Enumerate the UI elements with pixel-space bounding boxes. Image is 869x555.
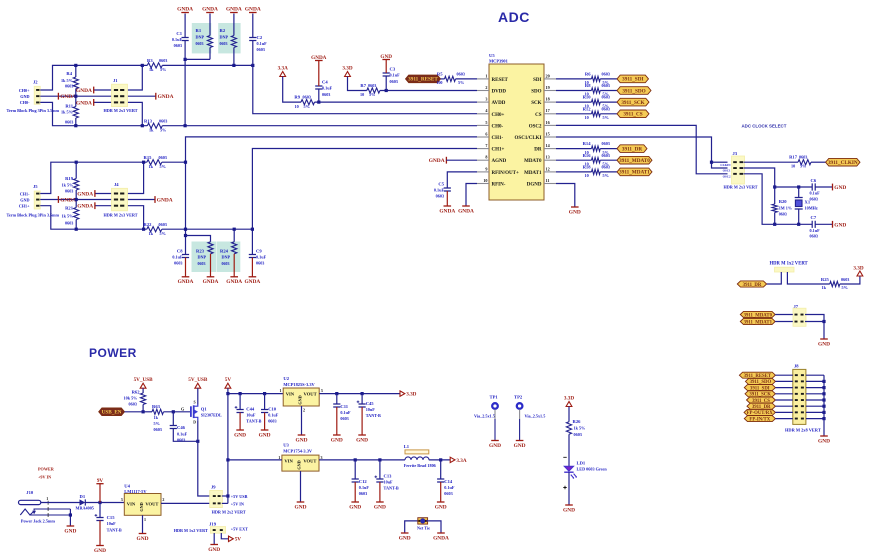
svg-text:100: 100 [436, 80, 442, 85]
svg-text:10k 5%: 10k 5% [124, 395, 138, 400]
svg-text:VOUT: VOUT [145, 502, 158, 507]
capacitor C44 [237, 410, 244, 413]
junction J8 bus row6 [822, 405, 825, 408]
power port 3.3A at R9 [280, 72, 286, 77]
svg-text:GND: GND [296, 437, 308, 443]
svg-text:Term Block Plug 3Pin 3.5mm: Term Block Plug 3Pin 3.5mm [7, 108, 60, 113]
power port GNDA right of J4 [154, 196, 156, 203]
junction R19/R21 GNDA row [75, 198, 78, 201]
resistor R1 DNP [207, 36, 212, 48]
svg-text:1k: 1k [154, 415, 159, 420]
svg-text:10uF: 10uF [366, 407, 376, 412]
wire C1 down crossing to CH0- rail [184, 41, 186, 126]
svg-text:0603: 0603 [602, 153, 610, 158]
svg-text:3911_DR: 3911_DR [622, 146, 642, 152]
svg-text:3911_MDAT0: 3911_MDAT0 [619, 158, 650, 164]
svg-text:R19: R19 [65, 176, 74, 181]
power port GND below U4 [139, 533, 147, 535]
resistor R8 [592, 88, 601, 93]
svg-text:5%: 5% [160, 127, 166, 132]
port 3911_CS at J8 row5 [747, 397, 776, 403]
wire R19 bottom [75, 190, 77, 200]
wire U4 GND pin [142, 515, 144, 533]
inductor L1 ferrite bead [405, 450, 429, 454]
U5 pin 12 stub [544, 171, 556, 173]
port 3911_RESET [406, 75, 441, 83]
power port GNDA J2 middle [57, 93, 59, 100]
svg-text:5%: 5% [458, 80, 464, 85]
wire X1 top [798, 187, 800, 198]
wire CH1 bottom rail to C9 [162, 228, 253, 230]
wire C3 down [385, 76, 387, 91]
wire R63 to gate [164, 411, 192, 413]
svg-text:CH0+: CH0+ [492, 113, 505, 118]
wire J8 row1 to GND bus [806, 374, 824, 376]
svg-text:R63: R63 [152, 404, 161, 409]
svg-text:10: 10 [585, 115, 589, 120]
junction J8 bus row7 [822, 411, 825, 414]
svg-text:GND: GND [818, 341, 830, 347]
wire R8 to tag [600, 90, 617, 92]
svg-text:POWER: POWER [38, 467, 55, 472]
svg-text:SDO: SDO [531, 90, 541, 95]
svg-text:3: 3 [121, 497, 123, 502]
junction J8 bus row2 [822, 380, 825, 383]
J4 pin marks [114, 193, 118, 195]
junction R11 bottom [74, 124, 77, 127]
junction C3 [385, 89, 388, 92]
svg-text:R25: R25 [821, 277, 830, 282]
wire U2 VOUT rail [319, 393, 400, 395]
junction CH1- at R15 [184, 161, 187, 164]
svg-text:GND: GND [259, 432, 271, 438]
wire 5V_USB to R62 [142, 388, 144, 393]
resistor R62 [141, 393, 146, 405]
header J8 [793, 369, 806, 424]
wire OSC2 node to C7 [775, 223, 813, 225]
wire C12 to GND [354, 482, 356, 502]
svg-text:R62: R62 [132, 390, 141, 395]
svg-text:GND: GND [331, 437, 343, 443]
wire 3911_SDO to J8 [775, 380, 792, 382]
junction C1/R1 [184, 58, 187, 61]
wire C13 down [379, 460, 381, 479]
svg-text:0.1uF: 0.1uF [177, 431, 188, 436]
wire net tie right [426, 521, 441, 533]
wire LED to GND [568, 472, 570, 505]
power port GND at net tie [401, 532, 409, 534]
port 3911_MDAT0 [617, 156, 652, 164]
wire GNDA to J4 row1 [95, 193, 113, 195]
resistor R63 [152, 409, 164, 414]
wire CH1- vertical to U5 pin6 [186, 137, 478, 255]
svg-text:R17: R17 [789, 155, 798, 160]
terminal block J2 [34, 86, 40, 104]
svg-text:C9: C9 [256, 249, 262, 254]
svg-text:R18: R18 [583, 165, 592, 170]
port FP-OUT/RX at J8 row7 [744, 409, 775, 415]
resistor R7 [367, 88, 380, 93]
capacitor C13 [376, 479, 383, 482]
wire R12 to tag [600, 113, 617, 115]
svg-text:GND: GND [298, 395, 303, 404]
wire C5 to GNDA [446, 191, 448, 206]
J3 pin marks [733, 161, 737, 163]
svg-text:VOUT: VOUT [303, 459, 316, 464]
junction J4 row1 vertical [142, 161, 145, 164]
junction C10 [263, 392, 266, 395]
wire FP-OUT/RX to J8 [775, 411, 792, 413]
svg-text:MCP3901: MCP3901 [489, 59, 508, 64]
svg-text:SCK: SCK [531, 101, 541, 106]
power port GND below J7 [820, 338, 828, 340]
svg-text:R2: R2 [220, 28, 226, 33]
power port GNDA at pin8 [445, 157, 447, 164]
net tie NT1 [418, 518, 428, 524]
svg-text:5%: 5% [154, 421, 160, 426]
svg-text:J4: J4 [114, 182, 119, 187]
svg-text:LM1117-5V: LM1117-5V [124, 489, 147, 494]
power port GNDA above C4 [315, 60, 323, 62]
svg-text:10: 10 [295, 104, 299, 109]
svg-text:0603: 0603 [602, 165, 610, 170]
svg-text:R12: R12 [583, 106, 592, 111]
svg-text:DNP: DNP [222, 255, 231, 260]
U5 pin 3 stub [477, 101, 489, 103]
U5 pin 6 stub [477, 136, 489, 138]
svg-text:R14: R14 [583, 141, 592, 146]
junction J8 bus row8 [822, 417, 825, 420]
wire L1 to 3.3A [429, 459, 450, 461]
wire R17 to CLKIN tag [811, 161, 826, 163]
U5 pin 18 stub [544, 101, 556, 103]
wire 3.3D to R7 [348, 77, 367, 91]
svg-text:L1: L1 [404, 444, 410, 449]
power port 5V_USB at R62 [140, 383, 146, 388]
wire R9 to pin3 [315, 101, 478, 103]
wire C15 to GND [99, 521, 101, 546]
wire CH0+ top rail [40, 65, 147, 90]
resistor R2 DNP [231, 36, 236, 48]
svg-text:0603: 0603 [359, 491, 367, 496]
wire junction to R63 [143, 411, 152, 413]
junction J8 bus row5 [822, 398, 825, 401]
svg-text:0603: 0603 [159, 222, 167, 227]
wire CH0- bottom rail [40, 102, 147, 125]
wire GNDA to C2 [252, 14, 254, 38]
svg-text:8: 8 [485, 155, 487, 160]
svg-text:GNDA: GNDA [203, 279, 219, 285]
svg-text:3.3A: 3.3A [278, 65, 288, 71]
wire C15 down [99, 503, 101, 518]
svg-text:J3: J3 [733, 151, 738, 156]
svg-text:3911_RESET: 3911_RESET [408, 77, 438, 83]
svg-text:20: 20 [546, 73, 550, 78]
wire C13 to GND [379, 482, 381, 502]
wire RESET tag to R5 [441, 78, 445, 80]
connector J10 power jack [19, 500, 41, 504]
svg-text:DVDD: DVDD [492, 90, 507, 95]
svg-text:HDR M 2x3 VERT: HDR M 2x3 VERT [724, 185, 758, 190]
svg-text:Via_2.5x1.5: Via_2.5x1.5 [474, 413, 495, 418]
wire C46 down [172, 412, 174, 426]
port 3911_MDAT0 at J7 [740, 311, 775, 317]
svg-text:R15: R15 [144, 155, 153, 160]
junction R19 top [75, 161, 78, 164]
svg-text:5V_USB: 5V_USB [134, 377, 154, 383]
svg-text:14: 14 [546, 143, 551, 148]
junction CH1- at R22 rail [184, 228, 187, 231]
wire CH1 top rail to vertical [162, 161, 186, 163]
svg-text:C1: C1 [176, 31, 182, 36]
svg-text:GNDA: GNDA [157, 198, 173, 204]
svg-text:HDR M 2x3 VERT: HDR M 2x3 VERT [104, 108, 138, 113]
svg-text:5%: 5% [800, 164, 806, 169]
U5 pin 20 stub [544, 78, 556, 80]
svg-text:0603: 0603 [457, 71, 465, 76]
resistor R17 [798, 160, 811, 165]
junction R2 on CH0+ rail [232, 64, 235, 67]
svg-text:R11: R11 [65, 104, 73, 109]
resistor R24 DNP [232, 242, 237, 254]
wire MDAT1 tag to J7 [775, 321, 793, 323]
wire CH0- rail to U5 pin5 [162, 125, 477, 127]
svg-text:0.1uF: 0.1uF [810, 191, 821, 196]
wire J7 row1 to bus [805, 315, 824, 340]
wire J3 row2 to crystal [744, 168, 775, 204]
svg-text:0603: 0603 [154, 427, 162, 432]
svg-text:C5: C5 [438, 182, 444, 187]
power port GND below J8 [820, 435, 828, 437]
capacitor C6 [812, 183, 815, 190]
header J1 [112, 84, 128, 106]
wire 5V_USB to Q1 source [197, 388, 199, 404]
wire R4 bottom [75, 89, 77, 97]
wire R6 to tag [600, 78, 617, 80]
port 3911_MDAT1 [617, 168, 652, 176]
svg-text:GND: GND [489, 443, 501, 449]
junction OSC1 node C6 [773, 185, 776, 188]
wire C45 to GND [361, 407, 363, 435]
svg-text:0603: 0603 [810, 234, 818, 239]
resistor R15 [147, 160, 162, 165]
wire R20 to OSC2 node [774, 213, 776, 225]
svg-text:0603: 0603 [303, 94, 311, 99]
DNP highlight box R24 [217, 242, 241, 273]
wire R23 to GNDA [210, 254, 212, 277]
svg-text:16: 16 [546, 120, 550, 125]
power port 9V above D1 [96, 483, 103, 485]
power port GNDA J5 middle [57, 196, 59, 203]
svg-text:R1: R1 [196, 28, 202, 33]
svg-text:C7: C7 [811, 215, 817, 220]
wire pin11 to GND [556, 184, 575, 208]
wire U4 VOUT to J9 row2 [161, 502, 212, 504]
wire pin to R12 [556, 113, 592, 115]
svg-text:R26: R26 [573, 419, 582, 424]
svg-text:AVDD: AVDD [492, 101, 506, 106]
wire 5V bar to node [99, 484, 101, 503]
wire R11 bottom [75, 118, 77, 126]
svg-text:ADC CLOCK SELECT: ADC CLOCK SELECT [742, 124, 787, 129]
power port GNDA above C1 [181, 12, 189, 14]
wire C10 to GND [264, 413, 266, 431]
svg-text:5V: 5V [225, 377, 232, 383]
svg-text:0603: 0603 [779, 212, 787, 217]
svg-text:LD1: LD1 [577, 461, 586, 466]
wire 3911_CS to J8 [775, 399, 792, 401]
wire C12 down [354, 460, 356, 479]
wire pin to R16 [556, 159, 592, 161]
U5 pin 17 stub [544, 113, 556, 115]
svg-text:OSC1: OSC1 [723, 169, 731, 173]
wire R25 to 3.3D [840, 276, 860, 284]
svg-text:3: 3 [485, 97, 487, 102]
svg-text:0603: 0603 [322, 92, 330, 97]
svg-text:R3: R3 [147, 58, 153, 63]
svg-text:0.1uF: 0.1uF [256, 255, 267, 260]
wire OSC1 to J3 row1 [712, 161, 728, 163]
svg-text:GNDA: GNDA [226, 6, 242, 12]
U5 pin 1 stub [477, 78, 489, 80]
resistor R13 [147, 123, 162, 128]
svg-text:GND: GND [569, 209, 581, 215]
svg-text:C46: C46 [177, 425, 186, 430]
svg-text:GNDA: GNDA [245, 6, 261, 12]
svg-text:0603: 0603 [65, 221, 73, 226]
wire J6 pin2 to R25 [787, 272, 829, 284]
svg-text:C10: C10 [268, 407, 277, 412]
svg-text:D: D [193, 420, 196, 424]
svg-text:U5: U5 [489, 53, 495, 58]
svg-text:10: 10 [360, 92, 364, 97]
wire MDAT0 tag to J7 [775, 314, 793, 316]
wire C11 down [336, 394, 338, 404]
wire pin9 to C5 [447, 172, 477, 188]
svg-text:0603: 0603 [574, 432, 582, 437]
svg-text:3.3D: 3.3D [406, 392, 416, 398]
junction R62/R63/USB_EN [142, 410, 145, 413]
wire J1 row3 to bottom rail [126, 102, 143, 125]
wire C46 to drain [173, 429, 198, 442]
svg-text:1k: 1k [149, 127, 154, 132]
power port GNDA at net tie [437, 532, 445, 534]
svg-text:0603: 0603 [222, 261, 230, 266]
svg-text:CH0-: CH0- [492, 124, 504, 129]
svg-text:1k 5%: 1k 5% [61, 110, 73, 115]
wire 3911_SDI to J8 [775, 387, 792, 389]
resistor R19 [74, 179, 79, 191]
svg-text:1k: 1k [149, 164, 154, 169]
svg-text:GNDA: GNDA [76, 100, 92, 106]
wire C4 to GNDA [318, 61, 320, 86]
junction 5V to U3 rail [226, 458, 229, 461]
junction gate/C46 [172, 410, 175, 413]
svg-text:1k: 1k [149, 231, 154, 236]
DNP highlight box R23 [192, 242, 217, 273]
wire U3 GND pin [300, 471, 302, 502]
svg-text:J2: J2 [33, 80, 38, 85]
svg-text:5V: 5V [235, 537, 242, 543]
power port GND below U2 [298, 434, 306, 436]
svg-text:1: 1 [144, 517, 146, 522]
wire 3911_DR to J8 [775, 405, 792, 407]
svg-text:0603: 0603 [390, 79, 398, 84]
wire TP2 to GND [519, 409, 521, 419]
svg-text:VIN: VIN [284, 459, 293, 464]
wire pin to R14 [556, 148, 592, 150]
svg-text:Via_2.5x1.5: Via_2.5x1.5 [525, 413, 546, 418]
power port GNDA J1 row3 [93, 99, 95, 106]
capacitor C10 [261, 410, 268, 413]
wire CH1+ vertical to U5 pin7 [252, 149, 477, 230]
svg-text:5V_USB: 5V_USB [188, 377, 208, 383]
terminal block J5 [34, 191, 40, 209]
wire C9 down [251, 229, 253, 254]
svg-text:MCP1825S-3.3V: MCP1825S-3.3V [283, 382, 315, 387]
junction C46/drain [196, 440, 199, 443]
wire C14 to GND [440, 482, 442, 502]
junction X1 top [797, 185, 800, 188]
wire D1 to 5V node [85, 502, 124, 504]
svg-text:3911_MDAT1: 3911_MDAT1 [744, 320, 773, 325]
resistor R12 [592, 111, 601, 116]
junction J8 bus row3 [822, 386, 825, 389]
power port GND at C6 [832, 184, 834, 191]
svg-text:GND: GND [139, 502, 144, 511]
header J7 [793, 308, 806, 326]
capacitor C46 [170, 426, 177, 429]
U5 pin 9 stub [477, 171, 489, 173]
svg-text:GNDA: GNDA [439, 208, 455, 214]
svg-text:CH1-: CH1- [492, 136, 504, 141]
wire USB_EN tag to junction [125, 411, 144, 413]
svg-text:0603: 0603 [159, 58, 167, 63]
resistor R9 [301, 100, 315, 105]
svg-text:R24: R24 [220, 249, 229, 254]
resistor R23 DNP [208, 242, 213, 254]
svg-text:0.1uF: 0.1uF [359, 485, 370, 490]
svg-text:0603: 0603 [340, 416, 348, 421]
svg-text:R20: R20 [779, 199, 788, 204]
resistor R11 [73, 107, 78, 119]
power port GND below C10 [261, 429, 269, 431]
svg-text:J19: J19 [209, 522, 217, 527]
power port GNDA below R23 [207, 276, 215, 278]
svg-text:0.1uF: 0.1uF [172, 37, 183, 42]
svg-text:GND: GND [137, 536, 149, 542]
wire GNDA row J2 to J1 [40, 95, 113, 97]
regulator U3 MCP1754 [282, 455, 319, 471]
wire R7 to pin2 [380, 90, 477, 92]
svg-text:5%: 5% [160, 231, 166, 236]
wire CH1 top rail [40, 162, 147, 193]
svg-text:MDAT1: MDAT1 [524, 171, 542, 176]
svg-text:LED 0603 Green: LED 0603 Green [577, 467, 608, 472]
svg-text:CH0+: CH0+ [19, 88, 30, 93]
svg-text:0.1uF: 0.1uF [257, 41, 268, 46]
junction C14 [439, 458, 442, 461]
svg-text:10: 10 [585, 173, 589, 178]
J1 pin marks [114, 89, 118, 91]
wire GNDA to J4 row3 [95, 205, 113, 207]
power port GNDA below C9 [249, 276, 257, 278]
svg-text:C44: C44 [246, 407, 255, 412]
wire 5V to U3 VIN [228, 459, 282, 461]
svg-text:2: 2 [162, 497, 164, 502]
DNP highlight box R2 [218, 23, 240, 53]
port USB_EN [99, 408, 125, 416]
